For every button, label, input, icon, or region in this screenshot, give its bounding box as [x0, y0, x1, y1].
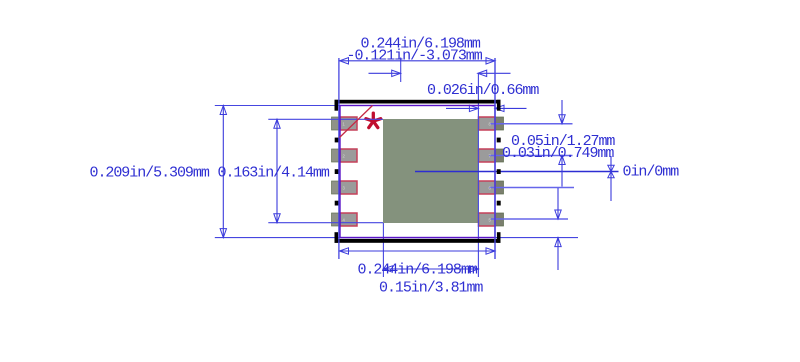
dimension -0.121in: left arrowhead — [392, 70, 401, 76]
dimension 0in origin: upper tail and arrow — [610, 156, 612, 172]
dimension -0.121in: right arrow line — [478, 72, 511, 74]
dimension 0.026in: right arrowhead — [495, 105, 504, 111]
dimension 0.209in: bottom arrow — [220, 229, 226, 238]
silkscreen top-right tick — [497, 100, 501, 111]
pin 6 lead outline — [479, 181, 496, 194]
pad 6 copper — [479, 181, 504, 194]
package body outline (courtyard, purple) — [340, 106, 495, 238]
svg-text:0in/0mm: 0in/0mm — [623, 164, 680, 181]
extension line thermal pad right edge — [477, 74, 479, 278]
pin 4 lead outline — [340, 213, 357, 226]
pad 2 copper — [332, 149, 358, 162]
pad 7 copper — [479, 149, 504, 162]
dimension 0.03in: upper tail and arrow — [557, 188, 559, 219]
dimension 0.026in: left arrow line — [446, 107, 478, 109]
dimension 0.163in: top arrow — [274, 119, 280, 128]
dimension 0.244in top: right arrow — [486, 58, 495, 64]
silkscreen bottom bar — [335, 239, 501, 243]
extension line pad row bottom — [268, 222, 383, 224]
dimension 0.026in: right arrow line — [495, 107, 527, 109]
dimension 0.209in: vertical line — [222, 106, 224, 238]
pin 8 lead outline — [479, 117, 496, 130]
svg-text:0.163in/4.14mm: 0.163in/4.14mm — [218, 165, 330, 182]
leader pin 7 centerline — [489, 155, 573, 157]
pin 2 lead outline — [340, 149, 357, 162]
dimension 0.209in: top arrow — [220, 106, 226, 115]
pad 3 copper — [332, 181, 358, 194]
leader pin 8 centerline — [490, 123, 573, 125]
dimension 0.244in top: left arrow — [340, 58, 349, 64]
pad 1 copper (left row) — [332, 117, 358, 130]
leader pin 5 centerline — [491, 218, 568, 220]
pad 5 copper — [479, 213, 504, 226]
pin 3 lead outline — [340, 181, 357, 194]
silkscreen top-left tick — [335, 100, 339, 111]
svg-text:-0.121in/-3.073mm: -0.121in/-3.073mm — [347, 48, 483, 65]
silkscreen dot left b — [335, 169, 339, 174]
dimension -0.121in: left arrow line — [369, 72, 401, 74]
extension line right package edge — [494, 58, 496, 259]
extension line pad row top — [268, 118, 383, 120]
dimension 0.05in: lower tail and arrow — [561, 156, 563, 187]
thermal pad P9 (center exposed pad) — [383, 119, 478, 223]
dimension 0.03in: lower tail and arrow — [557, 238, 559, 270]
dimension 0.05in: upper tail and arrow — [561, 100, 563, 124]
extension line package top — [215, 105, 340, 107]
extension line offset reference — [400, 58, 402, 83]
pin 7 lead outline — [479, 149, 496, 162]
dimension 0.163in: bottom arrow — [274, 214, 280, 223]
dimension 0.244in top: line — [340, 60, 496, 62]
dimension -0.121in: right arrowhead — [478, 70, 487, 76]
pin 1 lead outline — [340, 117, 357, 130]
svg-text:0.15in/3.81mm: 0.15in/3.81mm — [379, 280, 483, 297]
extension line thermal pad left edge — [382, 223, 384, 277]
extension line left package edge — [338, 58, 340, 259]
silkscreen dot right c — [497, 201, 501, 206]
origin centerline y=0 — [415, 171, 619, 173]
dimension 0.163in: vertical line — [276, 119, 278, 222]
svg-text:0.209in/5.309mm: 0.209in/5.309mm — [90, 165, 210, 182]
svg-text:0.244in/6.198mm: 0.244in/6.198mm — [358, 262, 478, 279]
pad 4 copper — [332, 213, 358, 226]
dimension 0.244in bottom: line — [340, 250, 496, 252]
pin 1 marker asterisk — [366, 113, 381, 127]
pad 8 copper (right row) — [479, 117, 504, 130]
extension line package bottom — [215, 237, 578, 239]
pin 5 lead outline — [479, 213, 496, 226]
silkscreen dot right b — [497, 169, 501, 174]
silkscreen bottom-left tick — [335, 232, 339, 243]
silkscreen dot right a — [497, 138, 501, 143]
silkscreen bottom-right tick — [497, 232, 501, 243]
silkscreen top bar — [335, 100, 501, 104]
silkscreen dot left c — [335, 201, 339, 206]
silkscreen dot left a — [335, 138, 339, 143]
leader pin 6 centerline — [489, 187, 574, 189]
dimension 0.026in: left arrowhead — [469, 105, 478, 111]
dimension 0.15in bottom: line — [383, 268, 478, 270]
dimension 0in origin: lower tail and arrow — [610, 172, 612, 202]
svg-text:0.026in/0.66mm: 0.026in/0.66mm — [427, 82, 539, 99]
pin 1 marker diagonal — [340, 106, 373, 138]
svg-text:0.03in/0.749mm: 0.03in/0.749mm — [502, 145, 614, 162]
